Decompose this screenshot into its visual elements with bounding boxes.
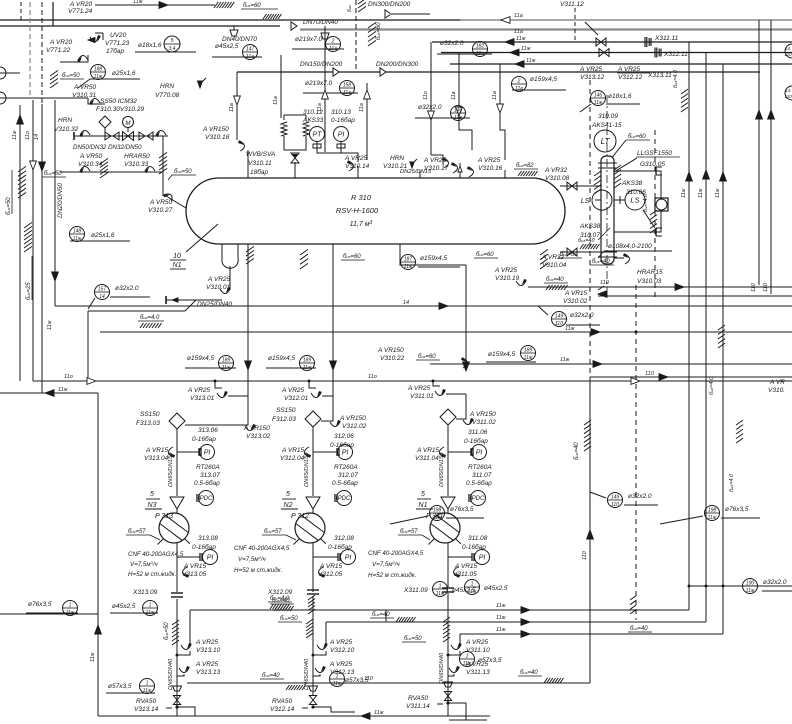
flow arrow: [52, 272, 59, 281]
wire: [560, 185, 603, 187]
nozzle: [294, 162, 296, 178]
hatch: [18, 166, 26, 172]
svg-text:N2: N2: [284, 502, 293, 509]
flow arrow: [245, 361, 252, 370]
svg-text:V310.01: V310.01: [206, 284, 231, 291]
conn: [337, 553, 339, 561]
svg-text:F310.30V310.29: F310.30V310.29: [96, 106, 144, 113]
flow arrow: [659, 374, 668, 381]
hatch: [263, 14, 267, 19]
wire: [309, 381, 316, 388]
svg-text:бuз=50: бuз=50: [280, 616, 298, 622]
svg-text:148: 148: [73, 228, 82, 234]
svg-text:PDC: PDC: [338, 496, 351, 502]
wire 11ж bottom: [98, 715, 490, 717]
flow arrow: [593, 361, 602, 368]
svg-text:SS150: SS150: [276, 407, 296, 414]
flow arrow: [95, 625, 102, 634]
wire: [20, 2, 22, 20]
svg-text:V312.14: V312.14: [270, 706, 295, 713]
wire: [316, 142, 318, 148]
dash net V311.12: [574, 8, 576, 40]
svg-text:11ж: 11ж: [681, 188, 687, 198]
wire gray: [390, 13, 430, 15]
svg-text:A VR: A VR: [769, 379, 785, 386]
svg-text:ø32x2.0: ø32x2.0: [763, 579, 787, 586]
svg-text:311.06: 311.06: [468, 429, 488, 436]
svg-text:V312.04: V312.04: [280, 455, 305, 462]
dot: [312, 654, 315, 657]
svg-text:N1: N1: [173, 262, 182, 269]
conn: [468, 494, 470, 502]
wire: [614, 199, 625, 201]
wire: [189, 610, 191, 645]
svg-text:X312.11: X312.11: [663, 51, 688, 58]
svg-text:бuз=4.0: бuз=4.0: [140, 315, 160, 321]
wire: [433, 381, 440, 386]
wire: [441, 52, 792, 54]
wire: [340, 142, 342, 148]
flag: [165, 296, 167, 304]
wire: [41, 2, 43, 104]
hatch: [100, 158, 108, 164]
svg-text:DN65/DN40: DN65/DN40: [168, 658, 174, 690]
wire: [447, 509, 449, 513]
wire: [614, 211, 661, 232]
wire: [177, 451, 199, 453]
dash net: [355, 0, 357, 72]
flow arrow: [720, 172, 727, 181]
flow arrow: [361, 713, 370, 720]
valve AVR25 V310.01: [220, 287, 231, 294]
wire: [400, 244, 466, 265]
wire: [448, 556, 472, 558]
inst PI: [338, 445, 353, 460]
svg-text:A VR50: A VR50: [79, 153, 103, 160]
hatch: [544, 678, 548, 683]
svg-text:14.: 14.: [785, 46, 791, 51]
svg-text:WVB/SVA: WVB/SVA: [246, 151, 275, 158]
svg-text:1: 1: [146, 680, 149, 686]
dot: [635, 331, 638, 334]
svg-text:ø45x2,5: ø45x2,5: [112, 603, 136, 610]
diamond SS50: [99, 116, 111, 128]
hatch: [274, 606, 278, 611]
svg-text:бuз=4.0: бuз=4.0: [673, 69, 679, 88]
svg-text:11a: 11a: [492, 91, 498, 100]
svg-text:V313.04: V313.04: [144, 455, 169, 462]
svg-text:11ж: 11ж: [565, 326, 575, 332]
reducer: [385, 10, 391, 18]
rva RVA50 V313.14: [173, 686, 182, 691]
wire: [322, 395, 333, 397]
valve AVR15 V313.04: [169, 447, 176, 458]
flow arrow: [756, 110, 763, 119]
wire: [689, 585, 792, 587]
svg-text:F312.03: F312.03: [272, 416, 296, 423]
flow arrow: [159, 2, 168, 9]
svg-text:PI: PI: [342, 450, 349, 457]
svg-text:DN40/DN70: DN40/DN70: [222, 36, 257, 43]
svg-text:V312.12: V312.12: [618, 74, 643, 81]
wire 11ж col3: [722, 64, 724, 634]
svg-text:A VR25: A VR25: [281, 387, 305, 394]
conn: [471, 553, 473, 561]
wire: [332, 260, 334, 421]
svg-text:11,7 м3: 11,7 м3: [350, 220, 373, 228]
wire: [447, 543, 449, 587]
svg-text:бuз=60: бuз=60: [418, 354, 436, 360]
flow arrow: [17, 115, 24, 124]
dash net: [589, 80, 591, 377]
svg-text:V310.11: V310.11: [248, 160, 272, 167]
flow arrow: [686, 172, 693, 181]
svg-text:ø32x2.0: ø32x2.0: [628, 493, 652, 500]
svg-text:A VR15: A VR15: [145, 447, 169, 454]
hatch: [584, 420, 591, 425]
valve AVR150 V310.18: [238, 140, 245, 151]
wire: [166, 196, 186, 208]
svg-text:PI: PI: [479, 555, 486, 562]
svg-text:бuз=50: бuз=50: [62, 73, 80, 79]
inst PT: [310, 127, 325, 142]
svg-text:11o: 11o: [64, 374, 73, 380]
valve: [442, 157, 449, 168]
svg-text:312.07: 312.07: [338, 472, 358, 479]
funnel: [321, 33, 329, 39]
svg-text:DN200/DN300: DN200/DN300: [376, 61, 419, 68]
wire: [324, 26, 326, 152]
valve AVR25 V311.13: [449, 666, 460, 673]
svg-text:110: 110: [784, 94, 792, 99]
wire: [313, 651, 326, 655]
diamond SS150: [440, 409, 456, 425]
svg-text:147: 147: [246, 46, 255, 52]
hatch: [736, 420, 743, 425]
valve: [144, 167, 155, 174]
svg-text:2: 2: [517, 78, 521, 84]
valve: [155, 131, 166, 138]
svg-text:PDC: PDC: [200, 496, 213, 502]
pump P311: [430, 513, 460, 543]
svg-text:11ж: 11ж: [594, 100, 603, 106]
flow arrow: [598, 291, 607, 298]
svg-text:V310.02: V310.02: [563, 298, 588, 305]
wire: [460, 19, 792, 21]
svg-text:бuз=40: бuз=40: [578, 238, 595, 244]
svg-text:DN20/DN50: DN20/DN50: [57, 183, 64, 218]
svg-text:14: 14: [34, 134, 40, 140]
valve AVR15 V311.05: [454, 567, 461, 578]
svg-text:HRAR50: HRAR50: [124, 153, 150, 160]
svg-text:110: 110: [784, 52, 792, 57]
svg-text:312.06: 312.06: [334, 433, 354, 440]
diamond SS150: [169, 413, 185, 429]
svg-text:V312.10: V312.10: [330, 647, 355, 654]
svg-text:PT: PT: [313, 132, 323, 139]
label 198b ø76x3.5: [705, 506, 720, 521]
svg-text:149: 149: [611, 494, 620, 500]
valve AVR25 V312.13: [315, 666, 326, 673]
svg-text:V310.31: V310.31: [72, 92, 97, 99]
svg-text:ø45x2,5: ø45x2,5: [215, 43, 239, 50]
svg-text:11ж: 11ж: [496, 615, 506, 621]
reducer: [333, 68, 339, 76]
svg-text:бuз=60: бuз=60: [343, 254, 361, 260]
hatch: [270, 604, 274, 609]
stub circle: [0, 67, 6, 79]
svg-text:V=7,5м3/ч: V=7,5м3/ч: [372, 560, 401, 568]
svg-text:бuз=50: бuз=50: [44, 171, 62, 177]
svg-text:V313.05: V313.05: [182, 571, 207, 578]
svg-text:110: 110: [645, 371, 655, 377]
svg-text:ø76x3,5: ø76x3,5: [28, 601, 52, 608]
svg-text:CNF 40-200AGX4,5: CNF 40-200AGX4,5: [234, 545, 290, 552]
flow arrow: [515, 61, 524, 68]
wire: [560, 363, 792, 365]
svg-text:A VR25: A VR25: [465, 639, 489, 646]
flow arrow: [521, 631, 530, 638]
wire instrument col: [470, 452, 472, 558]
flow arrow: [521, 619, 530, 626]
svg-text:ø108x4,0-2100: ø108x4,0-2100: [608, 243, 652, 250]
wire: [176, 509, 178, 513]
wire: [0, 19, 460, 21]
flow arrow: [30, 161, 37, 170]
svg-text:17бар: 17бар: [106, 47, 125, 55]
svg-text:RT260A: RT260A: [468, 464, 492, 471]
wire: [176, 543, 178, 592]
wire: [385, 610, 387, 622]
nozzle: [247, 244, 249, 260]
svg-text:A VR25: A VR25: [407, 385, 431, 392]
circle 149b: [608, 493, 623, 508]
svg-text:H=52 м ст.жидк.: H=52 м ст.жидк.: [368, 572, 416, 579]
wire: [177, 651, 190, 655]
dot: [688, 585, 691, 588]
flow arrow: [497, 104, 504, 113]
svg-text:11a: 11a: [229, 103, 235, 112]
svg-text:187: 187: [404, 256, 413, 262]
valve: [467, 166, 474, 177]
svg-text:H=52 м ст.жидк.: H=52 м ст.жидк.: [128, 571, 176, 578]
wire: [284, 142, 306, 150]
valve AVR25 V310.14: [347, 160, 354, 171]
svg-text:ø57x3,5: ø57x3,5: [108, 683, 132, 690]
flow arrow: [521, 607, 530, 614]
wire: [280, 55, 282, 118]
svg-text:ø18x1,6: ø18x1,6: [138, 42, 162, 49]
svg-text:DN25/DN40: DN25/DN40: [197, 301, 232, 308]
svg-text:AKS33: AKS33: [302, 117, 324, 124]
wire: [589, 377, 591, 683]
hatch: [214, 2, 218, 8]
wire 11ж h2: [326, 621, 706, 623]
svg-text:11ж: 11ж: [521, 46, 531, 52]
hatch: [306, 619, 313, 624]
svg-text:HRAR15: HRAR15: [637, 269, 663, 276]
wire DN150/DN200: [237, 71, 760, 73]
svg-text:188: 188: [94, 66, 103, 72]
svg-text:A VR50: A VR50: [73, 84, 97, 91]
wire 110: [590, 376, 792, 378]
valve AVR25 V313.10: [181, 643, 192, 650]
svg-text:V311.02: V311.02: [472, 419, 496, 426]
svg-text:11ж: 11ж: [698, 188, 704, 198]
pump P313: [159, 513, 189, 543]
valve bowtie: [123, 132, 129, 141]
svg-text:бuз=4.0: бuз=4.0: [729, 473, 735, 492]
svg-text:CNF 40-200AGX4,5: CNF 40-200AGX4,5: [128, 551, 184, 558]
svg-text:бuз=50: бuз=50: [6, 197, 12, 215]
svg-text:A VR150: A VR150: [202, 126, 229, 133]
svg-text:M: M: [126, 121, 131, 127]
flow arrow: [463, 362, 470, 371]
hatch: [650, 210, 657, 215]
wire: [465, 265, 467, 371]
wire: [312, 596, 314, 600]
svg-text:бuз=57: бuз=57: [264, 529, 282, 535]
reducer DN70/DN40: [291, 22, 297, 30]
gauge glass: [655, 198, 668, 211]
svg-text:DN150/DN200: DN150/DN200: [300, 61, 343, 68]
svg-text:310.12: 310.12: [303, 109, 323, 116]
svg-text:V311.01: V311.01: [410, 393, 434, 400]
wire: [247, 260, 249, 425]
conn: [198, 448, 200, 456]
svg-text:11ж: 11ж: [468, 589, 477, 595]
svg-text:SS50 ICM32: SS50 ICM32: [100, 98, 137, 105]
nozzle: [459, 163, 461, 178]
wire: [177, 556, 200, 558]
hatch: [443, 617, 450, 622]
wire: [162, 136, 164, 196]
svg-text:ø76x3,5: ø76x3,5: [725, 506, 749, 513]
motor M: [123, 117, 134, 128]
svg-text:бuз=40: бuз=40: [546, 277, 564, 283]
wire 11ж col2: [705, 53, 707, 623]
svg-text:A VR25: A VR25: [329, 661, 353, 668]
svg-text:A VR25: A VR25: [195, 639, 219, 646]
wire: [447, 425, 449, 496]
wire: [614, 171, 661, 198]
wire 11ж h1: [190, 609, 689, 611]
svg-text:бuз=57: бuз=57: [400, 529, 418, 535]
svg-text:V771.22: V771.22: [46, 47, 71, 54]
dot: [705, 585, 708, 588]
vessel R310: [186, 178, 565, 244]
flow arrow: [587, 530, 594, 539]
wire: [186, 610, 188, 683]
stub circle: [785, 44, 792, 58]
svg-text:11ж: 11ж: [708, 515, 717, 521]
circle 2/11a ø159: [512, 77, 527, 92]
svg-text:11a: 11a: [359, 103, 365, 112]
svg-text:313.07: 313.07: [200, 472, 220, 479]
hatch: [308, 595, 315, 600]
circle 188: [91, 65, 106, 80]
wire: [500, 115, 505, 160]
dot: [432, 380, 435, 383]
conn: [336, 448, 338, 456]
wire 11ж: [100, 331, 792, 333]
svg-text:V310.03: V310.03: [637, 278, 662, 285]
wire: [177, 497, 199, 499]
wire: [321, 396, 333, 421]
svg-text:311.08: 311.08: [468, 535, 488, 542]
svg-text:PDC: PDC: [472, 496, 485, 502]
svg-text:146: 146: [594, 92, 603, 98]
circle 148: [70, 227, 85, 242]
hatch: [286, 685, 290, 690]
valve AVR25 V311.10: [451, 643, 462, 650]
svg-text:бuз=40: бuз=40: [520, 670, 538, 676]
wire: [87, 311, 89, 381]
svg-text:11ж: 11ж: [374, 710, 384, 716]
nozzle: [247, 150, 249, 178]
reducer: [380, 68, 386, 76]
svg-text:N3: N3: [148, 502, 157, 509]
nozzle cone: [170, 497, 184, 509]
svg-text:V313.02: V313.02: [246, 433, 271, 440]
wire: [177, 674, 184, 676]
svg-text:HRN: HRN: [390, 155, 404, 162]
svg-text:V313.13: V313.13: [196, 669, 221, 676]
wire instrument col: [336, 452, 338, 558]
svg-text:CNF 40-200AGX4,5: CNF 40-200AGX4,5: [368, 550, 424, 557]
wire: [595, 199, 601, 201]
wire: [458, 53, 460, 119]
svg-text:V310.14: V310.14: [345, 163, 370, 170]
svg-text:1: 1: [149, 602, 152, 608]
svg-text:V310.34: V310.34: [78, 161, 103, 168]
svg-text:11a: 11a: [273, 96, 279, 105]
valve: [451, 162, 458, 173]
svg-text:X311.09: X311.09: [403, 587, 428, 594]
svg-text:бuз=60: бuз=60: [628, 134, 646, 140]
wire: [0, 72, 20, 74]
wire 110 col2: [770, 20, 772, 294]
svg-text:ø25x1,6: ø25x1,6: [91, 232, 115, 239]
wire 14: [41, 104, 43, 393]
flow arrow: [501, 17, 510, 24]
flow arrow: [631, 378, 640, 385]
svg-text:V310.32: V310.32: [54, 126, 79, 133]
wire: [312, 596, 314, 690]
valve AVR25 V310.19: [516, 279, 527, 286]
conn: [470, 448, 472, 456]
valve AVR25 V313.01: [217, 391, 228, 398]
svg-text:V311.04: V311.04: [415, 455, 439, 462]
svg-text:1: 1: [69, 602, 72, 608]
svg-text:A VR20: A VR20: [49, 39, 73, 46]
svg-text:бuз=40: бuз=40: [574, 442, 580, 460]
svg-text:бuз=60: бuз=60: [243, 3, 261, 9]
svg-text:11ж: 11ж: [12, 130, 18, 140]
wire: [313, 451, 337, 453]
svg-text:PI: PI: [338, 132, 345, 139]
flow arrow: [505, 39, 514, 46]
conn: [196, 494, 198, 502]
hatch: [718, 325, 725, 330]
wire: [448, 674, 454, 676]
svg-text:A VR15: A VR15: [183, 563, 207, 570]
wire: [313, 674, 320, 676]
svg-text:N1: N1: [419, 502, 428, 509]
svg-text:11ж: 11ж: [133, 0, 143, 5]
svg-text:RT260A: RT260A: [334, 464, 358, 471]
wire: [313, 707, 355, 712]
